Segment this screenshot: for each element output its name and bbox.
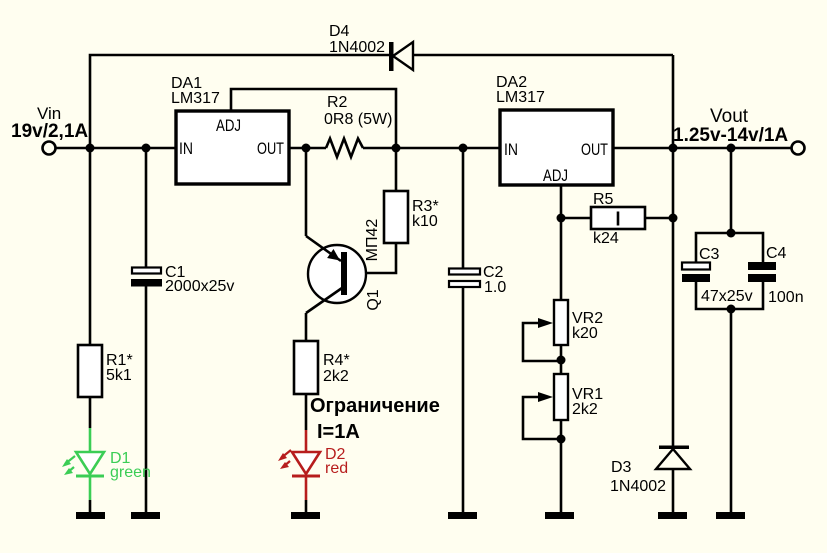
svg-text:R5: R5 [593, 191, 614, 208]
resistor R5 k24 [591, 191, 645, 247]
wire R4 to D2 [305, 394, 308, 430]
svg-text:2000x25v: 2000x25v [165, 278, 234, 295]
svg-text:Ограничение: Ограничение [310, 395, 440, 417]
wire D3 anode to ground [672, 469, 675, 514]
capacitor C4 100n [748, 245, 804, 306]
wire C3 C4 branch stem [730, 148, 733, 233]
wire R3 top [395, 148, 398, 191]
node junction at 146,148 [142, 144, 151, 153]
node junction at 561,439 [557, 435, 566, 444]
node junction at 731,309 [727, 305, 736, 314]
wire C1 branch [145, 148, 148, 514]
node junction at 90,148 [86, 144, 95, 153]
ground bar C2 [448, 512, 477, 519]
variable resistor VR2 k20 [538, 300, 603, 345]
ground bar VR1 [545, 512, 574, 519]
ground bar D1 [76, 512, 105, 519]
svg-text:LM317: LM317 [496, 89, 545, 106]
svg-text:МП42: МП42 [364, 219, 381, 262]
wire main rail Vin to DA1 [56, 147, 176, 150]
svg-text:ADJ: ADJ [216, 116, 241, 135]
wire R1 to D1 [89, 397, 92, 428]
svg-text:1N4002: 1N4002 [610, 478, 666, 495]
ground bar C3 C4 [716, 512, 745, 519]
ground bar C1 [131, 512, 160, 519]
svg-text:1.25v-14v/1A: 1.25v-14v/1A [673, 125, 788, 146]
svg-text:D3: D3 [611, 459, 632, 476]
wire DA2 ADJ down to VR2 [560, 185, 563, 300]
svg-text:IN: IN [179, 139, 193, 158]
svg-text:OUT: OUT [581, 140, 608, 159]
svg-text:2k2: 2k2 [572, 401, 598, 418]
wire right vertical x673 down to D3 [672, 55, 675, 446]
svg-text:Q1: Q1 [365, 289, 382, 310]
svg-text:2k2: 2k2 [323, 368, 349, 385]
node junction at 463,148 [459, 144, 468, 153]
node junction at 673,218 [669, 214, 678, 223]
svg-text:k10: k10 [412, 213, 438, 230]
svg-text:Vout: Vout [710, 106, 749, 127]
diode D3 1N4002 [610, 446, 690, 496]
wire Q1 collector to R4 [305, 313, 308, 341]
wire DA1 ADJ loop [231, 89, 396, 148]
node junction at 731,148 [727, 144, 736, 153]
ground bar D2 [291, 512, 320, 519]
resistor R2 0R8 5W zigzag [324, 94, 392, 157]
node Vin label [11, 104, 88, 142]
svg-text:1N4002: 1N4002 [329, 39, 385, 56]
wire DA2 OUT to Vout [613, 147, 791, 150]
node junction at 396,148 [392, 144, 401, 153]
node junction at 306,148 [302, 144, 311, 153]
capacitor C1 2000x25v [131, 264, 234, 295]
label current limit [310, 395, 440, 443]
svg-text:ADJ: ADJ [543, 166, 568, 185]
diode D4 1N4002 [329, 23, 413, 71]
ground bar D3 [658, 512, 687, 519]
wire C3 C4 bottom bracket [696, 282, 763, 514]
capacitor C2 1.0 [449, 264, 506, 296]
transistor Q1 MP42 PNP [306, 219, 382, 313]
svg-text:R2: R2 [327, 94, 348, 111]
wire R2 to DA2 IN [363, 147, 500, 150]
node junction at 561,360 [557, 356, 566, 365]
svg-text:19v/2,1A: 19v/2,1A [11, 121, 88, 142]
wire DA1 OUT to R2 [289, 147, 326, 150]
wire Q1 emitter from rail [305, 148, 308, 236]
node Vin terminal [43, 142, 56, 155]
svg-text:100n: 100n [768, 289, 804, 306]
node junction at 561,218 [557, 214, 566, 223]
wire VR2 wiper loop [523, 323, 561, 361]
wire R5 right lead [645, 217, 673, 220]
wire R1 top [89, 148, 92, 345]
op-amp U1 DA1 LM317 regulator box [171, 75, 289, 184]
wire R5 left lead [561, 217, 591, 220]
svg-text:5k1: 5k1 [106, 367, 132, 384]
wire VR1 wiper loop [523, 397, 561, 439]
resistor R3 k10 [384, 191, 439, 243]
svg-text:C3: C3 [699, 246, 720, 263]
wire C3 C4 top bracket [696, 233, 763, 262]
LED D1 green [62, 428, 151, 500]
svg-text:0R8 (5W): 0R8 (5W) [324, 111, 392, 128]
svg-text:1.0: 1.0 [484, 279, 506, 296]
wire top rail left to D4 [90, 55, 389, 148]
capacitor C3 47x25v [682, 246, 753, 305]
svg-text:C4: C4 [766, 245, 787, 262]
wire D4 to right vertical [413, 54, 673, 57]
wire VR2 bottom to VR1 top [560, 345, 563, 374]
node Vout label [673, 106, 788, 146]
wire R3 bottom to Q1 base [347, 243, 396, 273]
svg-text:green: green [110, 464, 151, 481]
resistor R4 2k2 [294, 341, 350, 394]
wire D2 cathode to ground [305, 500, 308, 514]
svg-text:47x25v: 47x25v [701, 288, 753, 305]
wire C2 branch [462, 148, 465, 514]
wire VR1 bottom to ground [560, 420, 563, 514]
node junction at 731,233 [727, 229, 736, 238]
svg-text:LM317: LM317 [171, 90, 220, 107]
node junction at 673,148 [669, 144, 678, 153]
svg-text:k24: k24 [593, 230, 619, 247]
op-amp U2 DA2 LM317 regulator box [496, 74, 613, 185]
svg-text:red: red [325, 460, 348, 477]
svg-text:OUT: OUT [257, 139, 284, 158]
svg-text:k20: k20 [572, 325, 598, 342]
svg-text:IN: IN [504, 140, 518, 159]
node Vout terminal [792, 142, 805, 155]
svg-text:R4*: R4* [323, 352, 350, 369]
variable resistor VR1 2k2 [538, 374, 603, 420]
resistor R1 5k1 [78, 345, 133, 397]
svg-text:D4: D4 [329, 23, 350, 40]
wire D1 cathode to ground [89, 500, 92, 514]
svg-text:I=1A: I=1A [317, 421, 360, 443]
LED D2 red [278, 430, 348, 500]
